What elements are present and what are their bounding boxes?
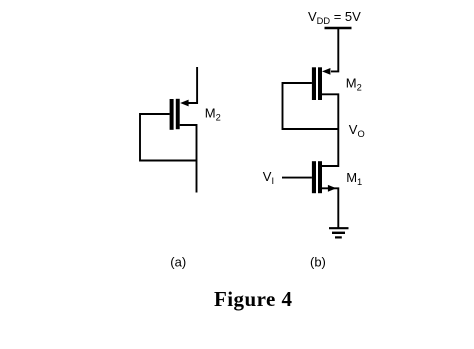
svg-text:M1: M1 (346, 170, 362, 187)
svg-text:(a): (a) (170, 255, 186, 270)
transistor M2 (b) gate bar (312, 67, 316, 100)
svg-text:Figure 4: Figure 4 (214, 287, 293, 311)
svg-text:VDD = 5V: VDD = 5V (308, 9, 361, 26)
arrowhead on M1 source, pointing right (328, 185, 336, 192)
ground symbol: bottom bar (335, 236, 342, 238)
arrowhead on M2 (b) drain, pointing left (322, 68, 330, 75)
wire: (a) gate lead + feedback loop (left, down, bottom) (140, 114, 197, 161)
transistor M2 (b) channel bar (318, 67, 322, 100)
wire: VDD rail to M2 drain (vertical + horizontal into arrow) (331, 28, 338, 71)
ground symbol: top bar (329, 227, 349, 229)
svg-text:M2: M2 (346, 76, 362, 93)
transistor M1 channel bar (318, 161, 322, 193)
svg-text:VO: VO (349, 122, 365, 139)
wire: (a) drain lead (vertical + horizontal into arrow) (183, 67, 197, 103)
wire: M2 (b) source lead, output vertical to M1 drain lead (322, 94, 339, 166)
wire: VI gate lead to M1 (282, 177, 312, 179)
power rail VDD bar (325, 27, 352, 29)
wire: M1 source lead + vertical to ground (322, 188, 339, 228)
svg-text:VI: VI (263, 169, 274, 186)
transistor M2 (a) channel bar (176, 99, 180, 129)
wire: (a) source lead + source vertical (180, 125, 197, 193)
svg-text:(b): (b) (310, 255, 326, 270)
transistor M2 (a) gate bar (170, 99, 174, 130)
wire: M2 (b) gate lead + feedback loop to output node (283, 83, 339, 129)
svg-text:M2: M2 (205, 106, 221, 123)
transistor M1 gate bar (312, 161, 316, 193)
arrowhead on M2 (a) drain, pointing left (180, 100, 188, 107)
ground symbol: middle bar (332, 232, 345, 234)
